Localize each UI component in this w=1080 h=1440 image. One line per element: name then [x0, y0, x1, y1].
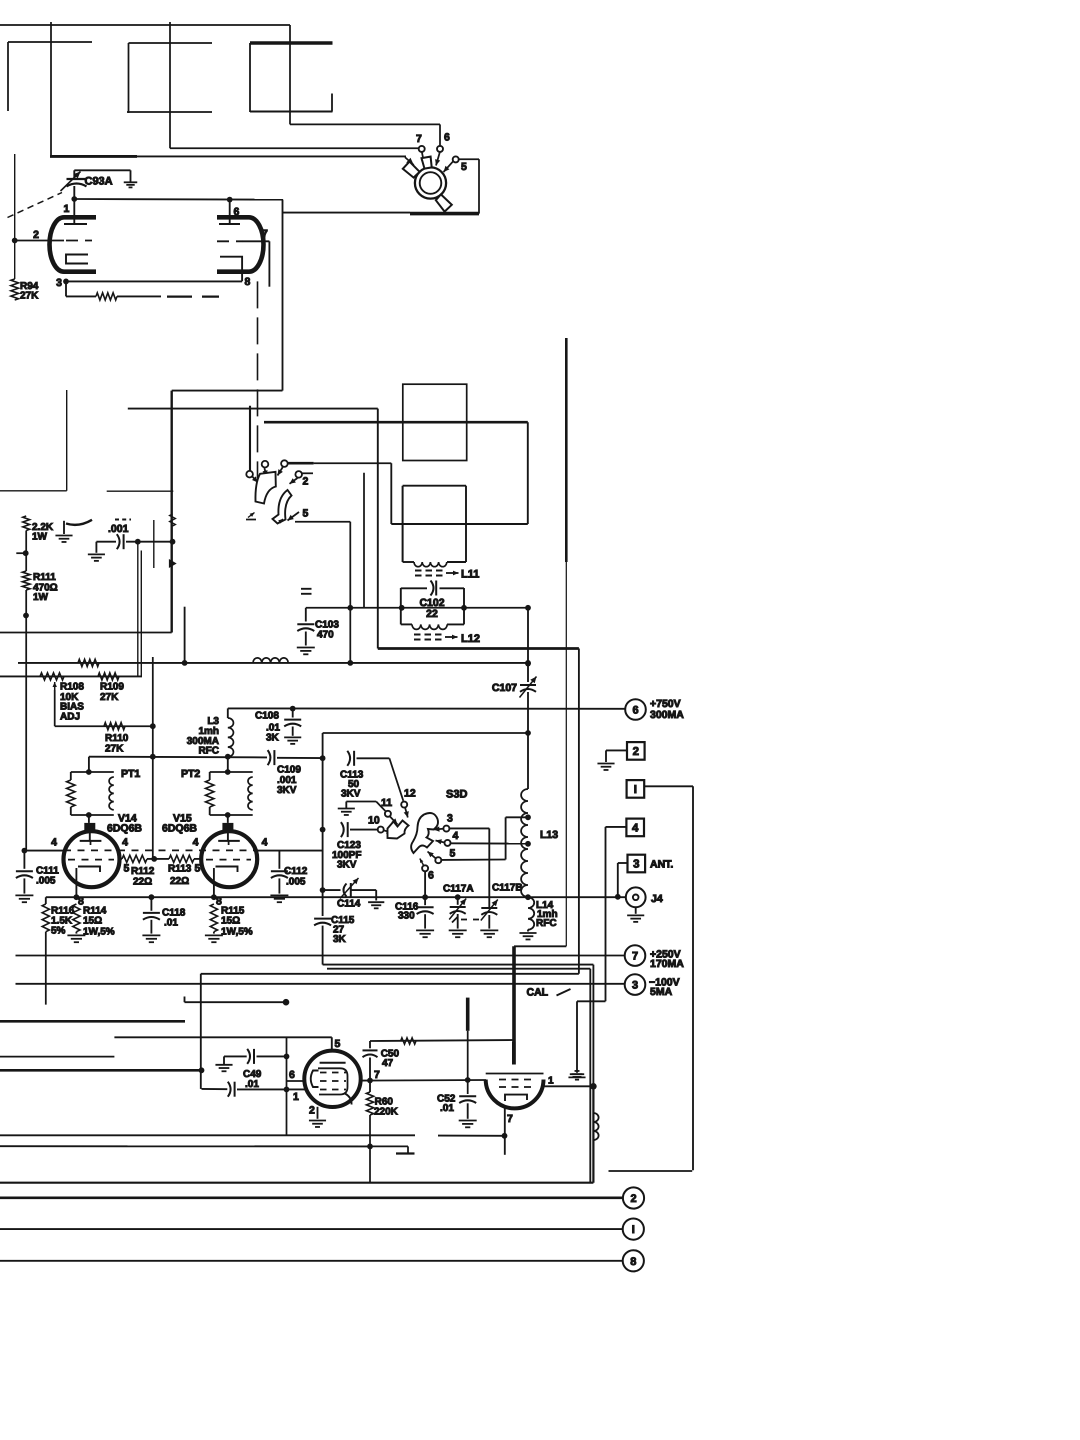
svg-text:ADJ: ADJ: [60, 712, 80, 723]
svg-text:1W: 1W: [32, 532, 48, 543]
svg-text:.001: .001: [108, 523, 129, 535]
svg-text:5: 5: [335, 1038, 341, 1050]
svg-text:5: 5: [124, 863, 130, 875]
svg-text:4: 4: [453, 830, 459, 842]
svg-text:R111: R111: [33, 572, 56, 583]
svg-text:3KV: 3KV: [341, 789, 361, 800]
svg-text:3: 3: [633, 859, 639, 871]
svg-text:C108: C108: [255, 711, 279, 722]
svg-text:4: 4: [262, 837, 268, 849]
svg-text:5%: 5%: [51, 926, 66, 937]
svg-text:7: 7: [262, 228, 268, 240]
svg-text:7: 7: [507, 1113, 513, 1125]
svg-text:10: 10: [368, 815, 380, 827]
svg-text:8: 8: [630, 1256, 636, 1268]
svg-text:3: 3: [632, 980, 638, 992]
svg-text:5: 5: [450, 848, 456, 860]
svg-text:6DQ6B: 6DQ6B: [162, 823, 197, 835]
svg-text:300MA: 300MA: [650, 709, 684, 721]
svg-text:3KV: 3KV: [277, 785, 297, 796]
svg-text:1W,5%: 1W,5%: [83, 927, 115, 938]
svg-text:7: 7: [632, 951, 638, 963]
svg-text:.01: .01: [440, 1103, 454, 1114]
svg-text:4: 4: [632, 822, 639, 834]
svg-text:C112: C112: [284, 866, 308, 877]
svg-text:C93A: C93A: [85, 176, 113, 188]
svg-text:3: 3: [56, 277, 62, 289]
svg-text:.005: .005: [36, 876, 56, 887]
svg-text:ANT.: ANT.: [650, 859, 673, 871]
svg-text:4: 4: [193, 837, 199, 849]
svg-text:.005: .005: [286, 877, 306, 888]
svg-text:R109: R109: [100, 682, 124, 693]
svg-text:27K: 27K: [100, 692, 119, 703]
svg-text:I: I: [634, 784, 637, 796]
svg-text:L13: L13: [540, 829, 558, 841]
svg-text:6: 6: [444, 132, 450, 144]
svg-text:1: 1: [548, 1076, 554, 1087]
svg-text:L11: L11: [461, 569, 479, 581]
svg-text:47: 47: [382, 1058, 394, 1069]
svg-text:S3D: S3D: [446, 789, 467, 801]
svg-text:C117A: C117A: [443, 884, 474, 895]
svg-text:6: 6: [428, 870, 434, 882]
svg-text:3K: 3K: [266, 733, 280, 744]
svg-text:6: 6: [632, 705, 638, 717]
svg-text:27K: 27K: [20, 291, 39, 302]
svg-text:6: 6: [289, 1069, 295, 1081]
svg-text:170MA: 170MA: [650, 958, 684, 970]
svg-text:R108: R108: [60, 682, 84, 693]
svg-text:2: 2: [303, 476, 309, 488]
svg-text:220K: 220K: [374, 1107, 399, 1118]
svg-text:3K: 3K: [333, 934, 347, 945]
svg-text:22: 22: [426, 608, 438, 620]
svg-text:2: 2: [633, 746, 639, 758]
svg-text:3: 3: [447, 813, 453, 825]
svg-text:3KV: 3KV: [337, 860, 357, 871]
svg-text:22Ω: 22Ω: [133, 877, 152, 888]
svg-text:5MA: 5MA: [650, 986, 673, 998]
svg-text:470: 470: [317, 630, 334, 641]
svg-text:7: 7: [416, 133, 422, 145]
svg-text:RFC: RFC: [198, 746, 219, 757]
svg-text:C109: C109: [277, 765, 301, 776]
svg-text:5: 5: [303, 508, 309, 520]
svg-text:330: 330: [398, 911, 415, 922]
svg-text:15Ω: 15Ω: [221, 916, 240, 927]
svg-text:1W: 1W: [33, 592, 49, 603]
svg-text:.01: .01: [245, 1079, 259, 1090]
svg-text:1: 1: [64, 203, 70, 215]
svg-text:27K: 27K: [105, 744, 124, 755]
svg-text:8: 8: [245, 276, 251, 288]
svg-text:R112: R112: [131, 866, 155, 877]
svg-text:2: 2: [630, 1193, 636, 1205]
svg-text:R113: R113: [168, 864, 192, 875]
svg-text:6DQ6B: 6DQ6B: [107, 823, 142, 835]
svg-text:RFC: RFC: [536, 918, 557, 929]
svg-text:4: 4: [51, 837, 57, 849]
svg-text:2: 2: [33, 229, 39, 241]
svg-text:5: 5: [461, 161, 467, 173]
svg-text:2: 2: [309, 1105, 315, 1117]
svg-text:7: 7: [374, 1069, 380, 1081]
svg-text:22Ω: 22Ω: [170, 876, 189, 887]
svg-text:L12: L12: [461, 633, 480, 645]
svg-text:C114: C114: [337, 899, 361, 910]
svg-text:C107: C107: [492, 682, 517, 694]
svg-text:+750V: +750V: [650, 698, 681, 710]
svg-text:PT2: PT2: [181, 768, 200, 780]
svg-text:6: 6: [234, 206, 240, 218]
svg-text:11: 11: [381, 797, 392, 809]
svg-text:1: 1: [293, 1091, 299, 1103]
svg-text:15Ω: 15Ω: [83, 916, 102, 927]
svg-text:R110: R110: [105, 733, 129, 744]
svg-text:1W,5%: 1W,5%: [221, 927, 253, 938]
svg-text:J4: J4: [651, 893, 663, 905]
svg-text:4: 4: [122, 837, 128, 849]
svg-text:.01: .01: [164, 918, 178, 929]
svg-text:I: I: [632, 1224, 635, 1236]
svg-text:C117B: C117B: [492, 883, 523, 894]
svg-text:5: 5: [195, 863, 201, 875]
svg-text:CAL: CAL: [527, 987, 549, 999]
svg-text:12: 12: [404, 788, 416, 800]
svg-text:PT1: PT1: [121, 768, 140, 780]
